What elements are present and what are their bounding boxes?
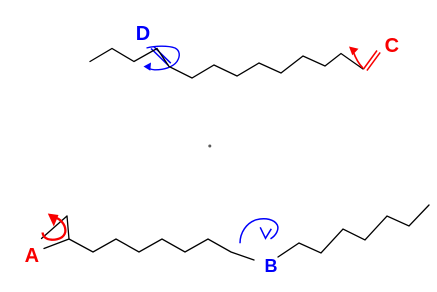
node: ketone carbonyl (blue C=O double bond from label D down-right to C) — [151, 47, 171, 66]
svg-text:A: A — [25, 245, 39, 267]
aldehyde carbonyl: red C=O double bond toward label C — [364, 51, 381, 71]
arrow D head — [144, 63, 152, 71]
svg-text:D: D — [136, 23, 150, 45]
wire: bottom-right alkyl chain — [278, 205, 429, 257]
arrow A (red hook, head pointing up-left) — [43, 218, 66, 240]
epoxide ring bonds (black) — [42, 216, 70, 249]
wire: bottom-left alkyl chain — [69, 239, 254, 260]
svg-text:B: B — [265, 256, 278, 276]
wire: alkyl chain of top molecule — [90, 49, 363, 79]
arrow B (blue arc with open head) — [240, 219, 278, 243]
arrow B head (open V) — [260, 227, 271, 238]
arrow C (red hook with head pointing up-left) — [353, 52, 363, 69]
arrow D (blue ellipse loop around the C=O) — [146, 46, 179, 70]
svg-text:C: C — [385, 35, 399, 57]
